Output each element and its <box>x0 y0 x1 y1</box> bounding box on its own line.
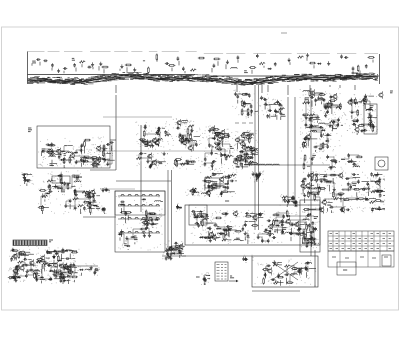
ground <box>169 256 172 260</box>
capacitor C33 <box>157 127 165 130</box>
capacitor C221 <box>46 250 56 254</box>
label <box>266 270 268 279</box>
ground <box>63 278 71 282</box>
capacitor C115 <box>56 187 60 192</box>
resistor R67 <box>303 141 305 148</box>
inductor L36 <box>192 192 199 196</box>
resistor R24 <box>84 156 86 163</box>
resistor R40 <box>175 159 182 161</box>
resistor R171 <box>67 271 74 273</box>
capacitor C151 <box>319 207 322 211</box>
capacitor C155 <box>352 173 359 176</box>
label <box>282 228 286 230</box>
resistor R83 <box>352 120 359 127</box>
resistor R3 <box>125 64 132 72</box>
capacitor C247 <box>266 265 270 268</box>
capacitor C57 <box>266 114 276 118</box>
capacitor C199 <box>267 239 270 244</box>
diode D15 <box>57 175 61 177</box>
resistor R39 <box>136 157 142 159</box>
capacitor C103 <box>370 114 373 123</box>
box outline <box>189 205 207 225</box>
inductor L29 <box>74 181 81 182</box>
capacitor C191 <box>242 227 245 231</box>
capacitor C125 <box>145 226 148 230</box>
capacitor C253 <box>244 258 248 263</box>
table grid (tuning chart) <box>328 231 394 251</box>
capacitor C72 <box>234 158 247 161</box>
ground <box>327 61 330 65</box>
transistor Q30 <box>324 102 337 109</box>
resistor R63 <box>248 136 250 143</box>
label <box>42 149 46 156</box>
capacitor C18 <box>46 144 50 147</box>
capacitor C178 <box>298 227 301 234</box>
capacitor C193 <box>313 238 316 242</box>
inductor L26 <box>353 166 360 170</box>
resistor R60 <box>249 149 256 159</box>
capacitor C19 <box>51 142 54 146</box>
ground <box>91 62 94 69</box>
ground <box>257 235 260 239</box>
node scan noise <box>233 131 258 170</box>
capacitor C162 <box>366 182 369 186</box>
label <box>69 159 73 161</box>
wire interconnect <box>42 144 104 153</box>
capacitor C211 <box>197 223 200 227</box>
node scan noise <box>186 188 200 196</box>
transistor Q44 <box>219 176 224 183</box>
resistor R164 <box>148 213 155 215</box>
transistor Q6 <box>155 129 160 136</box>
resistor R85 <box>356 156 363 158</box>
inductor L22 <box>303 90 310 91</box>
capacitor C13 <box>274 62 277 66</box>
resistor R68 <box>302 114 309 116</box>
resistor R130 <box>373 174 379 176</box>
node scan noise <box>137 153 168 169</box>
table lower rows <box>328 251 394 267</box>
capacitor C172 <box>310 178 313 187</box>
capacitor C65 <box>220 153 223 164</box>
ground <box>317 96 320 100</box>
capacitor C80 <box>309 117 321 121</box>
label <box>216 228 220 230</box>
inductor L7 <box>189 161 196 162</box>
capacitor C149 <box>322 179 326 182</box>
capacitor C78 <box>310 124 319 128</box>
resistor R26 <box>99 156 107 163</box>
resistor R70 <box>339 103 341 110</box>
label <box>143 60 145 62</box>
capacitor C228 <box>10 257 13 261</box>
resistor R12 <box>298 56 304 58</box>
wire interconnect <box>24 174 25 177</box>
resistor R33 <box>188 125 194 135</box>
inductor L41 <box>305 188 312 189</box>
capacitor C38 <box>164 130 167 134</box>
capacitor C174 <box>312 227 315 231</box>
label <box>45 262 49 264</box>
label <box>72 175 79 177</box>
inductor L18 <box>309 117 316 118</box>
resistor R29 <box>143 130 145 137</box>
resistor R108 <box>192 189 194 196</box>
transistor Q13 <box>188 144 193 151</box>
diode D31 <box>207 227 211 237</box>
capacitor C240 <box>63 266 66 270</box>
diode D2 <box>317 63 321 65</box>
ground <box>106 162 109 166</box>
resistor R74 <box>303 102 309 104</box>
diode D1 <box>268 68 272 70</box>
resistor R176 <box>11 250 18 260</box>
ground <box>99 62 102 71</box>
transistor Q61 <box>178 243 183 256</box>
label <box>306 237 314 239</box>
node scan noise <box>43 171 81 192</box>
inductor L42 <box>314 188 321 189</box>
label <box>42 266 46 273</box>
capacitor C136 <box>208 185 211 189</box>
capacitor C143 <box>258 173 261 177</box>
capacitor C130 <box>102 207 105 211</box>
capacitor C108 <box>311 157 314 165</box>
wire interconnect <box>306 229 316 246</box>
capacitor C189 <box>227 228 231 238</box>
resistor R103 <box>89 207 91 216</box>
transistor Q12 <box>179 137 190 144</box>
wire <box>96 150 228 152</box>
resistor R90 <box>73 176 82 178</box>
wire interconnect <box>14 262 65 278</box>
inductor L35 <box>118 204 125 213</box>
wire top band upper edge <box>28 52 379 54</box>
capacitor C179 <box>272 236 276 239</box>
resistor R46 <box>241 100 250 107</box>
transistor Q64 <box>40 255 50 262</box>
label <box>28 128 32 132</box>
wire interconnect <box>350 96 374 131</box>
capacitor C120 <box>74 206 77 210</box>
inductor L14 <box>251 164 258 165</box>
resistor R88 <box>330 160 337 162</box>
resistor R5 <box>156 54 158 62</box>
resistor R156 <box>202 220 214 227</box>
ground <box>190 128 193 132</box>
capacitor C141 <box>227 186 230 190</box>
transistor Q60 <box>294 221 304 228</box>
node scan noise <box>301 208 319 248</box>
capacitor C205 <box>223 229 227 238</box>
diode D28 <box>275 224 279 233</box>
capacitor C53 <box>278 104 282 112</box>
capacitor C122 <box>83 206 95 210</box>
node scan noise <box>173 156 199 169</box>
capacitor C197 <box>194 214 197 218</box>
capacitor C230 <box>47 264 51 267</box>
capacitor C148 <box>317 191 320 195</box>
ground <box>204 278 207 285</box>
label <box>274 230 283 232</box>
capacitor C150 <box>314 173 327 176</box>
label <box>14 272 19 280</box>
resistor R141 <box>303 242 310 244</box>
resistor R101 <box>41 205 43 214</box>
capacitor C79 <box>314 98 317 106</box>
capacitor C40 <box>149 165 152 169</box>
ground <box>288 58 291 65</box>
label <box>64 154 66 156</box>
capacitor C135 <box>230 180 237 183</box>
capacitor C74 <box>249 156 253 165</box>
resistor R137 <box>371 191 382 193</box>
box outline <box>300 200 320 252</box>
diode D4 <box>101 158 110 160</box>
ground <box>93 270 96 274</box>
ground <box>124 212 127 223</box>
capacitor C114 <box>63 182 70 186</box>
ground <box>57 69 60 73</box>
box outline <box>337 262 356 275</box>
transistor Q49 <box>309 172 314 179</box>
capacitor C113 <box>58 175 62 184</box>
capacitor C218 <box>176 205 179 209</box>
wire vertical pair x168 <box>168 170 172 256</box>
wire interconnect <box>195 213 314 241</box>
capacitor C48 <box>248 93 251 97</box>
ground <box>252 172 261 176</box>
transistor Q29 <box>310 89 323 96</box>
label <box>328 205 331 212</box>
resistor R58 <box>236 156 243 158</box>
capacitor C32 <box>141 139 144 143</box>
wire <box>110 139 116 141</box>
capacitor C212 <box>151 218 154 226</box>
capacitor C210 <box>290 224 294 234</box>
diode D43 <box>11 276 18 278</box>
capacitor C99 <box>352 123 356 126</box>
wire <box>115 85 117 93</box>
node scan noise <box>102 206 106 214</box>
capacitor C243 <box>94 268 100 271</box>
capacitor C168 <box>362 188 366 191</box>
label <box>159 162 166 164</box>
capacitor C109 <box>335 160 341 164</box>
capacitor C209 <box>295 233 299 236</box>
capacitor C111 <box>26 180 30 183</box>
ground <box>208 128 211 132</box>
resistor R6 <box>168 65 175 72</box>
inductor L34 <box>154 201 163 202</box>
capacitor C95 <box>315 116 319 122</box>
capacitor C220 <box>73 263 76 267</box>
transistor Q53 <box>285 218 290 225</box>
label <box>64 145 73 147</box>
diode D5 <box>60 159 64 161</box>
ground <box>226 60 229 69</box>
ground <box>59 275 62 279</box>
resistor R75 <box>329 100 336 102</box>
capacitor C134 <box>193 212 204 216</box>
capacitor C76 <box>240 162 250 166</box>
wire interconnect <box>169 257 171 258</box>
ground <box>92 194 100 198</box>
resistor R113 <box>206 176 212 184</box>
capacitor C14 <box>340 55 343 59</box>
ground <box>26 269 29 273</box>
box outline <box>52 176 60 183</box>
capacitor C142 <box>207 184 210 188</box>
resistor R172 <box>8 277 15 279</box>
resistor R185 <box>55 270 62 272</box>
wire <box>90 169 116 171</box>
diode D46 <box>17 276 21 278</box>
resistor R53 <box>214 133 229 135</box>
resistor R31 <box>139 139 146 141</box>
node scan noise <box>336 154 365 169</box>
ground <box>150 162 153 166</box>
ground <box>364 94 374 98</box>
diode D32 <box>155 219 159 221</box>
wire interconnect <box>11 250 75 280</box>
diode D45 <box>58 259 62 266</box>
wire <box>116 180 171 182</box>
label <box>135 239 137 244</box>
ground <box>165 248 177 252</box>
wire <box>236 85 238 92</box>
resistor R149 <box>222 239 232 241</box>
wire top band left edge <box>27 52 29 85</box>
capacitor C11 <box>237 56 240 63</box>
capacitor C26 <box>41 150 49 153</box>
transistor Q52 <box>305 182 314 189</box>
transistor Q10 <box>182 139 187 146</box>
wire interconnect <box>103 189 106 191</box>
resistor R192 <box>273 264 282 266</box>
resistor R81 <box>357 109 359 116</box>
ground <box>125 236 128 240</box>
ground <box>279 111 282 120</box>
capacitor C204 <box>226 225 230 228</box>
resistor R21 <box>50 153 62 155</box>
transistor Q65 <box>53 262 62 269</box>
resistor R80 <box>358 125 365 127</box>
capacitor C255 <box>165 256 168 260</box>
node scan noise <box>280 193 300 207</box>
node scan noise <box>244 255 253 261</box>
ground <box>364 197 376 201</box>
transistor Q66 <box>66 264 71 271</box>
resistor R32 <box>142 141 149 143</box>
transistor Q21 <box>240 140 245 147</box>
capacitor C29 <box>104 158 115 162</box>
ground <box>75 160 78 164</box>
resistor R155 <box>264 231 271 233</box>
wire interconnect <box>193 189 196 193</box>
ground <box>23 175 26 184</box>
diode D10 <box>321 129 325 135</box>
inductor L57 <box>305 262 312 263</box>
resistor R193 <box>263 277 265 284</box>
ground <box>305 116 308 120</box>
inductor L43 <box>314 180 321 189</box>
box outline <box>115 191 165 252</box>
transistor Q7 <box>155 139 160 146</box>
capacitor C242 <box>70 263 73 271</box>
label <box>96 207 100 209</box>
ground <box>250 146 258 150</box>
label <box>145 145 148 147</box>
transistor Q1 <box>96 145 108 152</box>
capacitor C250 <box>304 266 316 270</box>
capacitor C184 <box>261 239 264 243</box>
transistor Q35 <box>347 99 352 106</box>
label <box>312 155 316 157</box>
transistor Q48 <box>338 172 343 179</box>
ground <box>325 179 328 183</box>
capacitor C101 <box>356 118 359 122</box>
ground <box>325 105 328 109</box>
label <box>380 201 384 203</box>
inductor L3 <box>80 157 87 165</box>
wire <box>314 250 316 287</box>
wire interconnect <box>103 209 104 210</box>
node scan noise <box>39 148 110 168</box>
capacitor C21 <box>103 144 106 148</box>
ground <box>61 276 64 284</box>
label <box>281 32 287 34</box>
capacitor C37 <box>179 133 182 142</box>
label <box>76 177 82 179</box>
transistor Q47 <box>375 179 380 186</box>
transistor Q58 <box>252 214 263 221</box>
ground <box>120 229 123 237</box>
inductor L50 <box>267 234 274 235</box>
diode D29 <box>307 213 311 215</box>
label <box>212 174 223 176</box>
node scan noise <box>191 208 205 218</box>
ground <box>24 178 27 182</box>
capacitor C188 <box>213 224 217 227</box>
capacitor C6 <box>87 66 91 69</box>
label <box>50 164 58 166</box>
label <box>15 268 19 270</box>
ground <box>369 118 372 129</box>
wire interconnect <box>103 143 112 164</box>
transistor Q9 <box>146 140 151 147</box>
inductor L39 <box>201 193 208 197</box>
ground <box>146 159 154 163</box>
resistor R162 <box>145 210 147 217</box>
ground <box>356 196 359 200</box>
resistor R195 <box>291 268 304 270</box>
resistor R11 <box>259 62 265 67</box>
label <box>247 150 252 152</box>
resistor R115 <box>231 174 237 176</box>
capacitor C249 <box>285 274 289 285</box>
ground <box>23 175 26 179</box>
wire <box>329 85 331 87</box>
label <box>49 264 56 266</box>
diode D42 <box>22 253 34 255</box>
capacitor C244 <box>94 271 97 277</box>
resistor R139 <box>376 190 383 192</box>
resistor R179 <box>64 267 78 269</box>
ground <box>220 191 223 197</box>
wire vertical x311 <box>310 88 312 256</box>
ground <box>350 98 353 102</box>
